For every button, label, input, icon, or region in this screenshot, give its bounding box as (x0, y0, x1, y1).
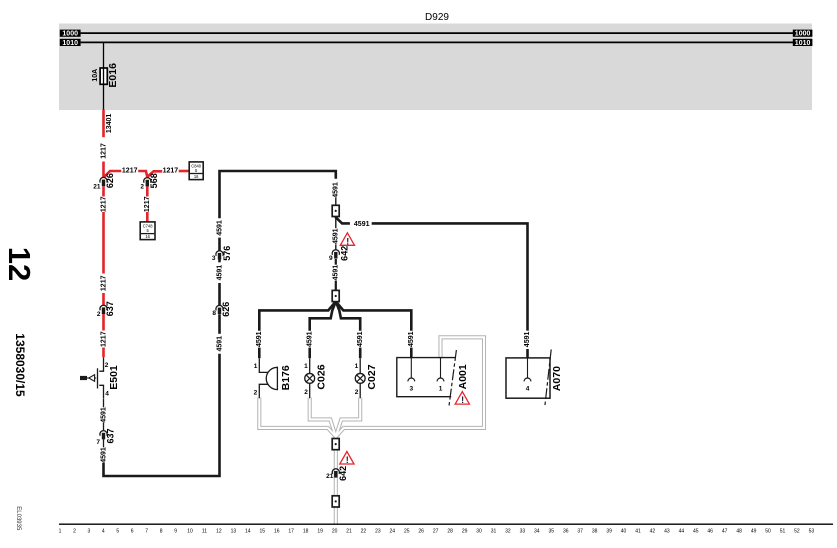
svg-text:53: 53 (809, 529, 815, 535)
svg-text:1358030/15: 1358030/15 (13, 333, 27, 397)
svg-text:626: 626 (105, 173, 115, 188)
svg-text:20: 20 (332, 529, 338, 535)
svg-text:1010: 1010 (795, 40, 811, 47)
svg-text:4591: 4591 (307, 331, 314, 347)
wire 1217 to switch E501 (102, 348, 105, 358)
svg-text:2: 2 (304, 389, 308, 396)
svg-text:42: 42 (650, 529, 656, 535)
wire 4591 below junction 7/637 (103, 440, 105, 448)
ruler baseline (59, 523, 833, 525)
svg-text:3: 3 (212, 255, 216, 262)
svg-text:38: 38 (592, 529, 598, 535)
wire 4591 fan outer right to A001 (336, 302, 412, 331)
splice S3 (332, 439, 339, 450)
splice S2 (332, 290, 339, 301)
connector junction 3/576 (216, 251, 223, 260)
svg-text:37: 37 (577, 529, 583, 535)
warning triangle A001 (455, 392, 469, 406)
wire white splice to bottom connector (334, 435, 338, 524)
warning triangle 642 top (340, 233, 354, 247)
svg-text:4: 4 (105, 391, 109, 398)
switch E501 contact bar (97, 368, 99, 388)
wire 4591 bottom U (104, 354, 220, 476)
node 1010 left label (60, 39, 81, 47)
svg-text:568: 568 (149, 173, 159, 188)
wire 4591 fan inner right to C027 (336, 302, 360, 331)
svg-text:C026: C026 (316, 364, 328, 389)
svg-text:9: 9 (329, 255, 333, 262)
svg-text:B176: B176 (280, 365, 292, 390)
node 1000 left label (60, 30, 81, 38)
wire 1217 to C748 box (146, 212, 149, 222)
svg-text:22: 22 (361, 529, 367, 535)
svg-text:43: 43 (664, 529, 670, 535)
svg-text:8: 8 (160, 529, 163, 535)
svg-text:642: 642 (338, 466, 348, 481)
wire white B176 pin2 to splice (259, 398, 336, 437)
wire 1217 below junction 2/637 (102, 313, 105, 330)
node 1000 right label (793, 30, 813, 38)
svg-text:EL03935: EL03935 (15, 506, 21, 531)
wire 1217 branch diagonal and horizontal (104, 171, 122, 178)
svg-text:642: 642 (340, 246, 350, 261)
svg-text:41: 41 (635, 529, 641, 535)
svg-text:33: 33 (520, 529, 526, 535)
svg-text:1000: 1000 (62, 31, 78, 38)
svg-text:1217: 1217 (163, 167, 179, 174)
svg-text:1000: 1000 (795, 31, 811, 38)
svg-text:2: 2 (355, 389, 359, 396)
svg-text:27: 27 (433, 529, 439, 535)
svg-text:4591: 4591 (524, 332, 531, 348)
connector junction 21 on white wire (332, 469, 339, 478)
svg-text:8: 8 (212, 310, 216, 317)
fuse E016 (100, 68, 107, 84)
splice S1 (332, 205, 339, 216)
wire E501 top lead (99, 357, 103, 371)
svg-text:15: 15 (260, 529, 266, 535)
svg-text:50: 50 (765, 529, 771, 535)
svg-text:4591: 4591 (217, 336, 224, 352)
svg-text:7: 7 (96, 439, 100, 446)
wire 4591 to junction 9 (335, 244, 337, 250)
svg-text:28: 28 (447, 529, 453, 535)
wire 1217 below junction 21 (102, 186, 105, 196)
svg-text:36: 36 (563, 529, 569, 535)
svg-text:2: 2 (97, 311, 101, 318)
lamp C027 (355, 358, 378, 398)
svg-text:35: 35 (549, 529, 555, 535)
svg-text:12: 12 (216, 529, 222, 535)
svg-text:626: 626 (221, 302, 231, 317)
svg-text:1: 1 (304, 363, 308, 370)
wire 1217 horizontal to junction 2/568 (138, 171, 147, 177)
wire 4591 splice S1 down (335, 216, 337, 228)
svg-text:4591: 4591 (333, 228, 340, 244)
wire 13401 red segment below band (102, 110, 105, 138)
svg-text:39: 39 (606, 529, 612, 535)
svg-text:34: 34 (534, 529, 540, 535)
svg-text:9: 9 (174, 529, 177, 535)
control unit A001 (396, 350, 469, 407)
svg-text:49: 49 (751, 529, 757, 535)
svg-text:A001: A001 (457, 364, 469, 389)
svg-text:44: 44 (679, 529, 685, 535)
wire 4591 top horizontal to splice column (220, 171, 336, 218)
wire 1217 segment to junction 21 (102, 162, 105, 178)
svg-text:E501: E501 (108, 365, 120, 390)
svg-text:31: 31 (491, 529, 497, 535)
G_RED (104, 110, 190, 358)
wire 4591 stub into C026 (308, 348, 311, 359)
wire 4591 E501 to junction 7/637 (103, 399, 105, 407)
wire 4591 right column above junction 8 (218, 283, 221, 306)
svg-text:10: 10 (187, 529, 193, 535)
svg-text:5: 5 (116, 529, 119, 535)
svg-text:17: 17 (288, 529, 294, 535)
svg-text:4591: 4591 (333, 182, 340, 198)
svg-text:1: 1 (254, 363, 258, 370)
svg-text:16: 16 (274, 529, 280, 535)
wire 1217 below junction 2/568 (146, 186, 149, 196)
connector junction 7/637 (100, 431, 107, 440)
wire 4591 right column mid (218, 314, 221, 333)
svg-text:12: 12 (2, 247, 37, 281)
svg-text:4591: 4591 (408, 331, 415, 347)
wire 4591 into splice S1 (335, 198, 337, 206)
svg-text:637: 637 (106, 428, 116, 443)
wire 4591 right column between labels (218, 259, 221, 262)
svg-text:11: 11 (202, 529, 207, 535)
wire 4591 stub into C027 (359, 348, 362, 359)
svg-text:21: 21 (93, 184, 101, 191)
svg-text:576: 576 (222, 246, 232, 261)
svg-text:4591: 4591 (217, 220, 224, 236)
wire 1217 long segment (102, 212, 105, 274)
svg-text:7: 7 (145, 529, 148, 535)
svg-text:29: 29 (462, 529, 468, 535)
svg-text:21: 21 (346, 529, 352, 535)
svg-text:6: 6 (131, 529, 134, 535)
svg-text:1010: 1010 (62, 40, 78, 47)
wire fuse drop from bus 1010 (103, 42, 105, 110)
svg-text:46: 46 (707, 529, 713, 535)
svg-text:25: 25 (404, 529, 410, 535)
wire 1217 to junction 2/637 (102, 293, 105, 305)
wire 4591 stub into B176 (258, 348, 261, 359)
svg-text:19: 19 (317, 529, 323, 535)
wire 1217 to C840 box (179, 170, 190, 173)
horn B176 (254, 358, 292, 398)
svg-text:4591: 4591 (354, 221, 370, 228)
ruler numbers (59, 529, 815, 535)
splice S4 (332, 496, 339, 507)
svg-text:32: 32 (505, 529, 511, 535)
G_GRAY_WIRES (259, 337, 484, 524)
svg-text:51: 51 (780, 529, 786, 535)
svg-text:16: 16 (194, 174, 199, 179)
connector junction 21/626 (100, 177, 107, 186)
svg-text:1217: 1217 (122, 167, 138, 174)
wire white A001 pin1 loop to splice (336, 337, 484, 436)
connector junction 8/626 (216, 305, 223, 314)
svg-text:23: 23 (375, 529, 381, 535)
svg-text:1217: 1217 (144, 196, 151, 212)
svg-text:48: 48 (736, 529, 742, 535)
G_BLACK_WIRES (98, 171, 528, 476)
svg-text:1: 1 (439, 386, 443, 393)
svg-text:26: 26 (418, 529, 424, 535)
svg-text:30: 30 (476, 529, 482, 535)
svg-text:40: 40 (621, 529, 627, 535)
wire 4591 stub into A070 (526, 349, 529, 358)
wire E501 bottom lead (99, 385, 103, 398)
svg-text:13: 13 (231, 529, 237, 535)
svg-text:3: 3 (88, 529, 91, 535)
connector box C840 (189, 162, 203, 180)
connector box C748 (140, 222, 155, 240)
svg-text:13401: 13401 (106, 114, 113, 134)
wire white C027 pin2 to splice (336, 398, 360, 437)
svg-text:10A: 10A (92, 69, 99, 82)
svg-text:A070: A070 (551, 366, 563, 391)
svg-text:47: 47 (722, 529, 728, 535)
svg-text:4591: 4591 (333, 265, 340, 281)
svg-text:1217: 1217 (100, 331, 107, 347)
svg-text:1: 1 (355, 363, 359, 370)
svg-text:52: 52 (794, 529, 800, 535)
wire 4591 right column above junction 3 (218, 238, 221, 251)
svg-text:1217: 1217 (100, 143, 107, 159)
svg-text:4591: 4591 (100, 447, 107, 463)
svg-text:4: 4 (102, 529, 105, 535)
connector junction 2/568 (144, 178, 151, 187)
svg-text:C027: C027 (366, 364, 378, 389)
connector junction 2/637 (100, 305, 107, 314)
svg-text:21: 21 (326, 473, 334, 480)
wire 4591 splice S1 to A070 branch (336, 216, 350, 223)
wire 4591 fan inner left to C026 (310, 302, 336, 331)
svg-text:4591: 4591 (100, 407, 107, 423)
svg-text:2: 2 (73, 529, 76, 535)
bus 1010 (81, 41, 794, 43)
svg-text:45: 45 (693, 529, 699, 535)
svg-text:24: 24 (390, 529, 396, 535)
wire labels rotated (100, 114, 531, 463)
svg-text:D929: D929 (425, 12, 449, 23)
svg-text:16: 16 (145, 234, 150, 239)
power rail band (59, 24, 812, 111)
svg-text:4591: 4591 (217, 265, 224, 281)
wire white C026 pin2 to splice (310, 398, 336, 437)
wire 4591 stub into A001 pin 3 (410, 348, 413, 359)
svg-text:4591: 4591 (256, 331, 263, 347)
connector junction 9 (332, 250, 339, 259)
svg-text:4: 4 (526, 385, 530, 392)
svg-text:2: 2 (254, 389, 258, 396)
wire 1217 horizontal junction 2/568 to C840 (147, 171, 162, 177)
lamp C026 (304, 358, 327, 398)
warning triangle 642 bottom (340, 452, 354, 466)
wire 4591 fan outer left to B176 (259, 302, 336, 331)
svg-text:18: 18 (303, 529, 309, 535)
svg-text:2: 2 (140, 184, 144, 191)
svg-text:1217: 1217 (100, 196, 107, 212)
svg-text:4591: 4591 (357, 331, 364, 347)
device A070 (506, 349, 563, 406)
svg-text:1217: 1217 (100, 275, 107, 291)
node 1010 right label (793, 39, 813, 47)
svg-text:3: 3 (409, 386, 413, 393)
white cores of white wires (259, 398, 336, 437)
bus 1000 (81, 32, 794, 34)
svg-text:637: 637 (105, 301, 115, 316)
switch E501 (80, 362, 120, 398)
svg-text:E016: E016 (107, 63, 119, 88)
wire 4591 horizontal to A070 corner (372, 223, 528, 330)
wire 4591 junction 9 to splice S2 (335, 259, 337, 265)
svg-text:14: 14 (245, 529, 251, 535)
svg-text:1: 1 (59, 529, 62, 535)
